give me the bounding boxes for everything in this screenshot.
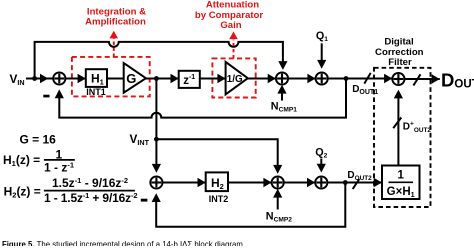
wire: VINT feedforward to S6 [156,139,277,166]
svg-text:INT2: INT2 [209,194,229,204]
block 1/(G*H1) [382,166,420,200]
summer S4 (digital correction adder) [392,73,404,85]
node C: DOUT1 tap [344,76,349,81]
summer S6 (adds VINT feedforward and NCMP2) [272,176,284,188]
svg-text:G: G [126,71,136,86]
svg-text:Gain: Gain [220,20,241,31]
svg-text:Attenuation: Attenuation [206,0,259,11]
integrator H1 (INT1) [86,69,107,87]
wire: VINT tap down to stage 2 [155,79,157,140]
wire 1/G to summer S2 [248,78,276,80]
wire: corrected DOUT2 up to S4 [397,96,399,166]
red annotation arrow 1 [113,38,115,57]
delay block z-1 [179,71,200,88]
bus slash after S4 [413,74,420,85]
svg-text:G×H1: G×H1 [387,186,415,199]
svg-text:Digital: Digital [384,36,413,47]
wire S3 to digital correction filter [328,78,393,80]
svg-text:Correction: Correction [375,47,424,58]
svg-text:1 - 1.5z-1 + 9/16z-2: 1 - 1.5z-1 + 9/16z-2 [44,191,137,205]
summer S3 (adds Q1) [316,72,328,84]
bus slash on DOUT2 wire [353,179,360,189]
svg-text:H1(z) =: H1(z) = [3,153,40,168]
bus slash on D+OUT2 wire [393,118,401,129]
attenuator 1/G [226,62,248,95]
dashed box: Digital Correction Filter [374,68,431,207]
svg-text:Filter: Filter [388,57,412,68]
svg-text:Figure 5. The studied incremen: Figure 5. The studied incremental design… [2,239,245,246]
wire S6 to S7 [284,182,315,184]
wire H2 to S6 [228,182,272,184]
node D: VINT [154,137,159,142]
node B: VINT tap [154,76,159,81]
wire S4 to DOUT [405,78,440,80]
wire: stage-2 feedback DOUT2 to S5 minus input [156,183,345,227]
summer S1 (input subtractor) [53,72,65,84]
red dashed box: Attenuation by Comparator Gain (around 1/G) [212,58,255,97]
wire: stage-1 feedback DOUT1 to S1 minus input (hops over VINT line) [59,79,346,118]
integrator H2 (INT2) [206,172,228,191]
wire z-1 to 1/G [200,78,226,80]
summer S5 (stage-2 input subtractor) [150,176,162,188]
wire H1 to G [107,78,124,80]
minus sign at S5 [141,199,148,202]
minus sign at S1 [43,95,49,98]
red annotation arrow 2 [233,40,235,59]
svg-text:H2(z) =: H2(z) = [4,184,41,199]
node E: DOUT2 tap [343,180,348,185]
svg-text:G = 16: G = 16 [20,133,57,147]
wire S1 to H1 [65,78,85,80]
wire S5 to H2 [163,182,206,184]
svg-text:1.5z-1 - 9/16z-2: 1.5z-1 - 9/16z-2 [52,176,128,190]
svg-text:1/G: 1/G [227,74,243,85]
noise input NCMP1 [281,92,283,101]
noise input NCMP2 [277,196,279,210]
summer S2 (adds VIN feedforward and NCMP1) [276,72,288,84]
red dashed box: Integration & Amplification (around H1 and G) [72,57,150,97]
svg-text:Amplification: Amplification [85,17,146,28]
wire VIN to summer S1 [26,78,53,80]
bus slash on DOUT1 wire [364,73,370,84]
node A: VIN tap [32,76,37,81]
wire S2 to S3 [288,78,316,80]
summer S7 (adds Q2) [315,176,327,188]
wire VINT down into summer S5 [155,139,157,165]
amplifier G [124,63,146,93]
wire G to z-1 with VINT tap node [146,78,179,80]
svg-text:1: 1 [397,170,404,182]
wire S7 to 1/(GxH1) block [327,182,382,184]
svg-text:INT1: INT1 [86,87,106,97]
wire: VIN feedforward to comparator summer (hops over red arrows) [35,42,283,79]
